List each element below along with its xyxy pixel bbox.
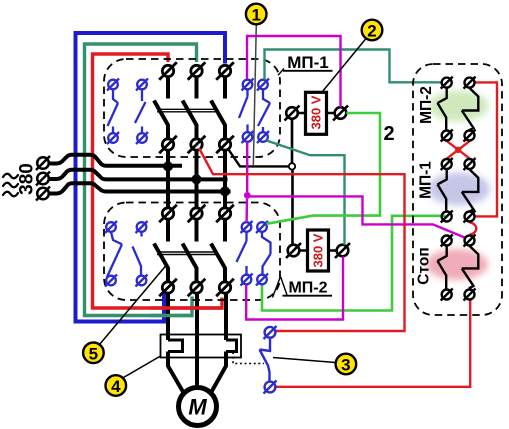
wire red loop overlay over columns	[150, 306, 222, 309]
svg-text:4: 4	[111, 377, 121, 396]
MP-2 main contact 3	[216, 205, 234, 297]
coil1 right terminal	[335, 107, 347, 119]
leader callout 5	[100, 266, 167, 345]
svg-text:5: 5	[89, 344, 98, 363]
wire magenta: aux bottom to node	[246, 142, 248, 192]
thermal relay box	[161, 335, 242, 358]
svg-text:МП-1: МП-1	[418, 161, 435, 199]
MP-1 aux contact left inner	[135, 79, 148, 145]
svg-text:380 V: 380 V	[309, 95, 324, 129]
node coil feed	[289, 163, 295, 169]
coil U1 380V (MP-1)	[306, 92, 327, 134]
contactor MP-1 dashed enclosure	[104, 59, 280, 157]
MP-2 main contact 2	[188, 205, 206, 297]
coil U2 380V (MP-2)	[308, 230, 329, 271]
callout 2	[362, 20, 383, 41]
button highlight pink	[426, 249, 488, 280]
MP-1 main contact 3	[216, 62, 234, 153]
wire magenta: MP-2 aux to coil2 right terminal	[246, 257, 343, 320]
wire red: Stop bottom to thermal contact bottom	[276, 300, 470, 387]
leader callout 4	[124, 356, 161, 378]
coil2 left terminal	[288, 245, 300, 257]
MP-1 aux contact right outer	[239, 79, 254, 144]
wire teal: MP-1 aux bottom to coil2 right	[267, 141, 345, 246]
button Stop contacts	[438, 235, 479, 301]
junction L1-column1	[163, 161, 173, 171]
MP-2 aux contact left inner	[133, 221, 148, 287]
MP-1 aux contact right inner	[257, 79, 270, 144]
supply terminal L3	[37, 188, 49, 200]
MP-1 aux contact left outer	[107, 79, 119, 145]
wire teal: MP-1 aux to MP-2 button	[265, 50, 442, 83]
svg-text:380 V: 380 V	[311, 233, 326, 267]
wire green: MP-1 button to MP-2 aux bottom	[262, 216, 446, 311]
svg-text:2: 2	[367, 22, 376, 41]
svg-text:МП-2: МП-2	[418, 86, 435, 124]
svg-text:2: 2	[383, 123, 394, 145]
junction L2-column2	[192, 174, 202, 184]
wire phase bus L1	[50, 155, 183, 166]
wire red: station right side	[475, 82, 497, 216]
contactor MP-2 dashed enclosure	[104, 203, 280, 301]
node magenta	[244, 192, 251, 199]
callout 1	[246, 4, 267, 25]
heater element right	[226, 340, 237, 352]
svg-text:1: 1	[251, 6, 260, 25]
coil2 right terminal	[337, 245, 349, 257]
MP-2 main contact 1	[159, 205, 177, 297]
coil1 left terminal	[286, 107, 298, 119]
supply tilde symbol	[3, 174, 18, 197]
heater element left	[168, 340, 183, 352]
wire red cross-connect X	[447, 141, 470, 158]
wire green loop: column2 top to column2 bottom of MP-2	[85, 44, 197, 316]
trip linkage dotted	[233, 352, 264, 364]
MP-1 main contact 1	[159, 62, 177, 153]
leader callout 3	[273, 358, 336, 363]
junction L3-column3	[220, 186, 230, 196]
svg-text:3: 3	[341, 356, 350, 375]
wire phase bus L2	[50, 170, 228, 180]
MP-2 aux contact right inner	[256, 221, 271, 286]
wire green: coil1 right to MP-2 aux	[267, 113, 381, 224]
wire coil1 left terminal down	[291, 119, 294, 163]
leader callout 2	[323, 39, 367, 92]
wire phase bus L3	[50, 183, 231, 193]
wire red loop: column1 top to column3 bottom of MP-2	[93, 54, 223, 308]
wire column2 to relay	[195, 293, 199, 386]
callout 3	[336, 354, 357, 375]
wire column1 relay to motor	[168, 352, 184, 394]
button highlight green	[429, 91, 489, 122]
wire coil feed from column3	[229, 150, 289, 167]
thermal NC contact	[260, 326, 277, 394]
wire green loop overlay over columns	[150, 314, 192, 317]
svg-text:M: M	[188, 395, 207, 420]
wire magenta: coil1 right loop	[247, 36, 341, 107]
wire column1 between blocks	[166, 150, 170, 208]
wire column2 between blocks	[195, 150, 199, 208]
wire magenta: node to MP-2 aux contact	[245, 199, 248, 222]
wire column3 between blocks	[223, 150, 227, 208]
svg-text:380: 380	[17, 163, 38, 195]
wire red: MP-1 contact2 to thermal contact	[199, 148, 405, 331]
wire red arc MP-1 to Stop	[470, 222, 477, 235]
motor M	[179, 388, 217, 426]
MP-1 mechanical link	[157, 109, 216, 112]
MP-2 aux contact left outer	[105, 221, 122, 287]
wire column3 to relay	[224, 293, 228, 340]
control station dashed enclosure	[413, 64, 502, 315]
wire column1 to relay	[166, 293, 170, 340]
supply terminal L2	[37, 173, 49, 185]
wire magenta: node to Stop button	[249, 196, 465, 237]
callout 4	[106, 375, 127, 396]
svg-text:МП-2: МП-2	[288, 280, 327, 297]
MP-1 main contact 2	[188, 62, 206, 153]
supply terminal L1	[36, 156, 50, 201]
button highlight lavender	[428, 173, 490, 206]
wire coil2 left terminal up	[291, 170, 294, 246]
button MP-1 contacts	[438, 158, 479, 223]
wire column3 relay to motor	[211, 352, 227, 394]
button MP-2 contacts	[438, 77, 479, 142]
leader callout 1	[253, 25, 256, 167]
wire blue loop: column3 top to column1 bottom of MP-2	[76, 33, 226, 322]
svg-text:Стоп: Стоп	[416, 247, 433, 284]
MP-2 aux contact right outer	[237, 221, 253, 286]
svg-text:МП-1: МП-1	[287, 53, 329, 72]
MP-2 mechanical link	[157, 252, 216, 255]
callout 5	[83, 343, 104, 364]
